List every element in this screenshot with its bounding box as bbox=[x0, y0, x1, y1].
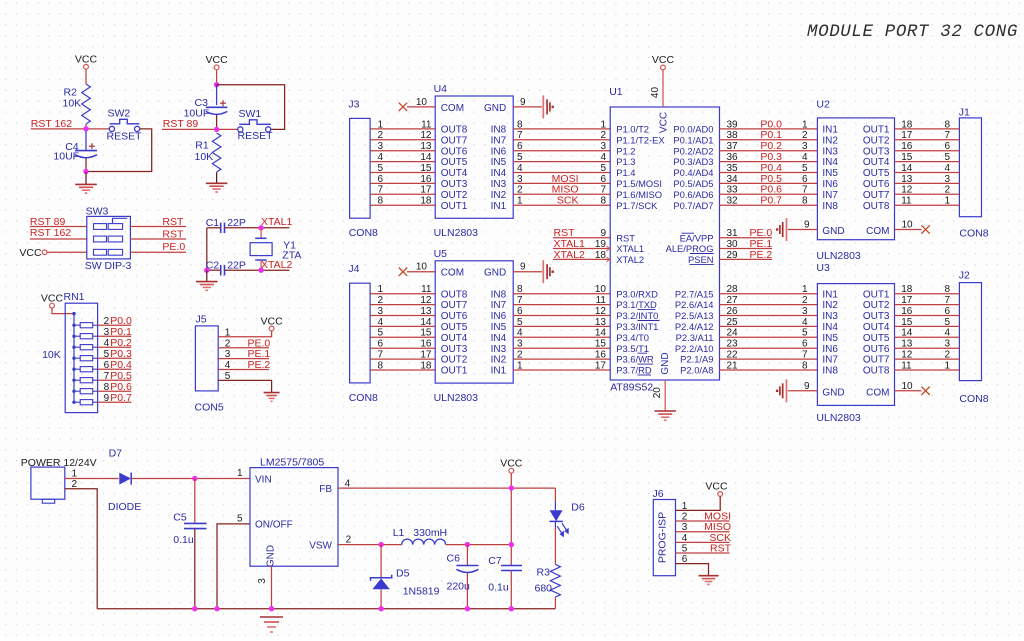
svg-text:2: 2 bbox=[378, 130, 384, 141]
svg-text:VCC: VCC bbox=[652, 54, 675, 66]
net label PE.0 bbox=[248, 337, 271, 349]
net label P0.3 bbox=[760, 151, 782, 163]
ground bbox=[776, 218, 787, 241]
svg-text:40: 40 bbox=[650, 87, 661, 99]
wire bbox=[513, 161, 610, 163]
pin number 6 bbox=[378, 339, 384, 350]
svg-text:OUT4: OUT4 bbox=[441, 333, 468, 344]
switch SW2 bbox=[107, 108, 143, 143]
pin number 3 bbox=[600, 141, 606, 152]
pin number 17 bbox=[901, 295, 913, 306]
connector J3 bbox=[348, 98, 378, 239]
pin number 33 bbox=[727, 185, 739, 196]
wire bbox=[676, 520, 730, 522]
svg-text:IN3: IN3 bbox=[491, 179, 507, 190]
pin number 9 bbox=[804, 220, 810, 231]
svg-text:0.1u: 0.1u bbox=[173, 534, 194, 546]
svg-text:XTAL1: XTAL1 bbox=[616, 243, 644, 254]
net label PE.1 bbox=[750, 238, 773, 250]
wire bbox=[895, 369, 960, 371]
pin number 3 bbox=[257, 578, 268, 584]
svg-text:10K: 10K bbox=[195, 151, 214, 163]
pin number 1 bbox=[517, 196, 523, 207]
pin number 13 bbox=[901, 339, 913, 350]
wire bbox=[380, 545, 382, 578]
pin number 4 bbox=[345, 478, 351, 489]
capacitor C1 bbox=[206, 217, 246, 233]
svg-text:VIN: VIN bbox=[255, 475, 272, 486]
pin number 8 bbox=[517, 284, 523, 295]
svg-text:P0.7: P0.7 bbox=[110, 392, 132, 404]
svg-text:XTAL1: XTAL1 bbox=[261, 216, 292, 228]
svg-text:12: 12 bbox=[595, 306, 607, 317]
ground bbox=[260, 617, 283, 632]
pin number 16 bbox=[595, 350, 607, 361]
svg-text:P3.1/TXD: P3.1/TXD bbox=[616, 299, 657, 310]
pin number 6 bbox=[682, 554, 688, 565]
wire bbox=[720, 347, 818, 349]
wire bbox=[513, 336, 610, 338]
svg-text:OUT3: OUT3 bbox=[441, 344, 468, 355]
pin number 1 bbox=[802, 119, 808, 130]
junction bbox=[378, 542, 383, 547]
net label MOSI bbox=[552, 173, 579, 185]
ground bbox=[196, 270, 218, 290]
wire bbox=[513, 347, 610, 349]
pin number 2 bbox=[600, 130, 606, 141]
svg-text:OUT7: OUT7 bbox=[441, 135, 468, 146]
wire bbox=[85, 124, 87, 129]
wire bbox=[370, 315, 435, 317]
op-amp U1 AT89S52 MCU bbox=[609, 86, 719, 394]
crystal Y1 bbox=[250, 238, 301, 261]
pin number 1 bbox=[72, 468, 78, 479]
svg-text:2: 2 bbox=[346, 534, 352, 545]
wire bbox=[895, 150, 960, 152]
wire bbox=[513, 304, 610, 306]
net label P0.1 bbox=[760, 129, 782, 141]
pin number 1 bbox=[944, 196, 950, 207]
svg-text:RESET: RESET bbox=[107, 130, 143, 142]
svg-text:OUT8: OUT8 bbox=[441, 125, 468, 136]
svg-text:P1.0/T2: P1.0/T2 bbox=[616, 124, 649, 135]
svg-text:8: 8 bbox=[802, 360, 808, 371]
wire bbox=[720, 204, 818, 206]
svg-text:4: 4 bbox=[600, 152, 606, 163]
wire bbox=[720, 150, 818, 152]
wire bbox=[513, 193, 610, 195]
svg-text:VSW: VSW bbox=[309, 540, 332, 551]
pin number 6 bbox=[944, 306, 950, 317]
pin number 18 bbox=[420, 196, 432, 207]
pin number 13 bbox=[595, 317, 607, 328]
svg-text:6: 6 bbox=[600, 174, 606, 185]
pin number 11 bbox=[421, 284, 432, 295]
wire bbox=[895, 182, 960, 184]
wire bbox=[260, 260, 262, 270]
svg-text:COM: COM bbox=[441, 268, 464, 279]
svg-text:680: 680 bbox=[535, 582, 553, 594]
svg-text:OUT7: OUT7 bbox=[863, 190, 890, 201]
svg-text:5: 5 bbox=[517, 317, 523, 328]
LED D6 bbox=[549, 502, 584, 538]
power flag VCC (reset 1) bbox=[75, 54, 98, 70]
wire bbox=[895, 347, 960, 349]
svg-text:3: 3 bbox=[600, 141, 606, 152]
net label P0.6 bbox=[110, 381, 132, 393]
svg-text:OUT5: OUT5 bbox=[863, 333, 890, 344]
wire bbox=[207, 227, 220, 229]
svg-text:P2.6/A14: P2.6/A14 bbox=[675, 299, 714, 310]
pin number 5 bbox=[600, 163, 606, 174]
svg-text:P2.7/A15: P2.7/A15 bbox=[675, 288, 714, 299]
svg-text:R3: R3 bbox=[537, 567, 551, 579]
svg-text:3: 3 bbox=[104, 327, 110, 338]
wire GND bbox=[788, 390, 818, 392]
pin number 24 bbox=[727, 328, 739, 339]
svg-text:U1: U1 bbox=[609, 86, 623, 98]
junction bbox=[509, 485, 514, 490]
svg-text:IN1: IN1 bbox=[491, 201, 507, 212]
svg-text:3: 3 bbox=[802, 306, 808, 317]
svg-text:CON8: CON8 bbox=[959, 393, 988, 405]
svg-text:IN4: IN4 bbox=[491, 168, 507, 179]
svg-text:P1.4: P1.4 bbox=[616, 167, 635, 178]
svg-text:6: 6 bbox=[378, 339, 384, 350]
svg-text:CON8: CON8 bbox=[959, 228, 988, 240]
svg-text:OUT1: OUT1 bbox=[441, 366, 468, 377]
no-connect X bbox=[399, 268, 407, 276]
net label P0.7 bbox=[760, 195, 782, 207]
pin number 1 bbox=[682, 501, 688, 512]
svg-text:11: 11 bbox=[421, 284, 432, 295]
svg-text:8: 8 bbox=[944, 284, 950, 295]
wire bbox=[720, 336, 818, 338]
wire bbox=[720, 182, 818, 184]
svg-text:IN5: IN5 bbox=[822, 333, 838, 344]
wire bbox=[370, 336, 435, 338]
svg-text:8: 8 bbox=[944, 119, 950, 130]
wire COM bbox=[407, 271, 435, 273]
pin number 9 bbox=[804, 381, 810, 392]
pin number 11 bbox=[596, 295, 607, 306]
pin number 13 bbox=[420, 141, 432, 152]
pin number 1 bbox=[600, 119, 606, 130]
svg-text:17: 17 bbox=[420, 185, 432, 196]
svg-text:CON8: CON8 bbox=[349, 392, 378, 404]
pin number 17 bbox=[420, 350, 432, 361]
svg-text:DIODE: DIODE bbox=[108, 501, 141, 513]
svg-text:5: 5 bbox=[104, 349, 110, 360]
svg-text:IN6: IN6 bbox=[491, 311, 507, 322]
wire RST162 bbox=[31, 128, 110, 130]
pin number 16 bbox=[901, 306, 913, 317]
svg-text:SW1: SW1 bbox=[239, 108, 262, 120]
net label RST 89 bbox=[163, 118, 199, 130]
no-connect X bbox=[399, 103, 407, 111]
IC U2 ULN2803 bbox=[816, 99, 894, 262]
wire bbox=[720, 304, 818, 306]
wire bbox=[676, 531, 730, 533]
net label P0.0 bbox=[110, 315, 132, 327]
svg-text:9: 9 bbox=[804, 220, 810, 231]
svg-text:7: 7 bbox=[378, 185, 384, 196]
pin number 27 bbox=[727, 295, 739, 306]
pin number 3 bbox=[104, 327, 110, 338]
svg-text:RESET: RESET bbox=[238, 130, 274, 142]
wire bbox=[553, 258, 610, 260]
pin number 8 bbox=[944, 119, 950, 130]
pin number 15 bbox=[420, 163, 432, 174]
pin number 5 bbox=[104, 349, 110, 360]
pin number 35 bbox=[727, 163, 739, 174]
wire bbox=[85, 69, 87, 84]
pin number 18 bbox=[420, 360, 432, 371]
svg-text:VCC: VCC bbox=[261, 316, 284, 328]
svg-text:IN8: IN8 bbox=[491, 289, 507, 300]
net label XTAL1 bbox=[261, 216, 292, 228]
power flag VCC (J6) bbox=[705, 481, 728, 497]
pin number 5 bbox=[225, 371, 231, 382]
pin number 6 bbox=[517, 141, 523, 152]
svg-text:ON/OFF: ON/OFF bbox=[255, 520, 293, 531]
pin number 31 bbox=[727, 228, 739, 239]
wire bbox=[513, 182, 610, 184]
wire bbox=[218, 331, 271, 337]
wire bbox=[98, 357, 132, 359]
title MODULE PORT 32 CONG bbox=[807, 22, 1018, 42]
svg-text:P0.2/AD2: P0.2/AD2 bbox=[673, 145, 713, 156]
svg-text:RST 162: RST 162 bbox=[31, 118, 72, 130]
wire bbox=[218, 358, 269, 360]
wire bbox=[895, 139, 960, 141]
svg-text:4: 4 bbox=[104, 338, 110, 349]
pin number 7 bbox=[517, 295, 523, 306]
pin number 2 bbox=[346, 534, 352, 545]
wire bbox=[370, 293, 435, 295]
svg-text:VCC: VCC bbox=[206, 54, 229, 66]
wire bbox=[513, 358, 610, 360]
wire bbox=[98, 335, 132, 337]
wire bbox=[895, 315, 960, 317]
wire bbox=[380, 589, 382, 608]
svg-text:OUT4: OUT4 bbox=[441, 168, 468, 179]
svg-text:20: 20 bbox=[652, 387, 663, 399]
svg-text:8: 8 bbox=[802, 196, 808, 207]
pin number 5 bbox=[517, 317, 523, 328]
svg-text:C5: C5 bbox=[173, 512, 187, 524]
wire bbox=[720, 293, 818, 295]
net label SCK bbox=[557, 195, 579, 207]
pin number 6 bbox=[600, 174, 606, 185]
wire bottom rail bbox=[97, 608, 555, 610]
pin number 7 bbox=[378, 350, 384, 361]
svg-text:5: 5 bbox=[378, 328, 384, 339]
wire pin20 bbox=[664, 380, 666, 411]
pin number 2 bbox=[517, 350, 523, 361]
pin decoration bbox=[607, 246, 610, 262]
pin number 5 bbox=[802, 163, 808, 174]
svg-text:OUT6: OUT6 bbox=[441, 146, 468, 157]
wire COM bbox=[895, 229, 922, 231]
svg-text:8: 8 bbox=[517, 119, 523, 130]
pin number 8 bbox=[944, 284, 950, 295]
svg-text:OUT6: OUT6 bbox=[863, 179, 890, 190]
pin number 7 bbox=[802, 185, 808, 196]
net label XTAL1 bbox=[554, 238, 585, 250]
wire bbox=[370, 304, 435, 306]
svg-text:4: 4 bbox=[944, 328, 950, 339]
svg-text:16: 16 bbox=[420, 174, 432, 185]
svg-text:8: 8 bbox=[517, 284, 523, 295]
pin number 7 bbox=[802, 350, 808, 361]
svg-text:LM2575/7805: LM2575/7805 bbox=[260, 457, 324, 469]
pin number 9 bbox=[104, 393, 110, 404]
pin number 14 bbox=[420, 152, 432, 163]
svg-text:SW2: SW2 bbox=[108, 108, 131, 120]
svg-text:1: 1 bbox=[944, 196, 950, 207]
svg-text:6: 6 bbox=[104, 360, 110, 371]
wire bbox=[98, 379, 132, 381]
pin number 12 bbox=[420, 295, 432, 306]
svg-text:RST: RST bbox=[616, 232, 635, 243]
pin number 11 bbox=[901, 360, 912, 371]
pin number 12 bbox=[420, 130, 432, 141]
pin number 14 bbox=[901, 163, 913, 174]
ground bbox=[699, 576, 719, 585]
svg-text:IN8: IN8 bbox=[822, 366, 838, 377]
wire bbox=[720, 248, 773, 250]
pin number 3 bbox=[944, 339, 950, 350]
pin number 14 bbox=[420, 317, 432, 328]
pin number 5 bbox=[378, 328, 384, 339]
svg-text:IN7: IN7 bbox=[491, 135, 507, 146]
svg-text:IN8: IN8 bbox=[491, 125, 507, 136]
svg-text:1: 1 bbox=[600, 119, 606, 130]
wire pin40 bbox=[662, 70, 664, 107]
svg-text:1: 1 bbox=[378, 284, 384, 295]
svg-text:MODULE PORT 32 CONG: MODULE PORT 32 CONG bbox=[807, 22, 1018, 42]
pin number 7 bbox=[104, 371, 110, 382]
svg-text:5: 5 bbox=[378, 163, 384, 174]
capacitor C4 bbox=[53, 141, 97, 163]
svg-text:6: 6 bbox=[517, 141, 523, 152]
svg-text:2: 2 bbox=[517, 185, 523, 196]
svg-text:6: 6 bbox=[802, 174, 808, 185]
junction bbox=[214, 82, 219, 87]
svg-text:3: 3 bbox=[944, 174, 950, 185]
svg-text:L1: L1 bbox=[393, 527, 405, 539]
wire bbox=[217, 85, 285, 130]
wire bbox=[895, 336, 960, 338]
capacitor C2 bbox=[206, 259, 246, 275]
svg-text:GND: GND bbox=[660, 352, 671, 374]
wire bbox=[720, 258, 773, 260]
svg-text:7: 7 bbox=[944, 130, 950, 141]
wire bbox=[554, 488, 556, 501]
pin number 2 bbox=[682, 511, 688, 522]
svg-text:IN2: IN2 bbox=[822, 135, 838, 146]
svg-text:IN4: IN4 bbox=[491, 333, 507, 344]
svg-text:U2: U2 bbox=[816, 99, 830, 111]
pin number 3 bbox=[225, 349, 231, 360]
wire bbox=[676, 496, 721, 510]
IC U3 ULN2803 bbox=[816, 262, 894, 424]
svg-text:7: 7 bbox=[802, 185, 808, 196]
svg-text:7: 7 bbox=[517, 130, 523, 141]
pin number 5 bbox=[517, 152, 523, 163]
net label P0.5 bbox=[110, 370, 132, 382]
wire bbox=[513, 315, 610, 317]
svg-text:7: 7 bbox=[802, 350, 808, 361]
wire GND bbox=[513, 106, 542, 108]
wire bbox=[895, 172, 960, 174]
junction bbox=[258, 225, 263, 230]
power flag VCC (supply) bbox=[500, 458, 523, 474]
svg-text:2: 2 bbox=[944, 350, 950, 361]
svg-text:FB: FB bbox=[319, 484, 332, 495]
svg-text:IN7: IN7 bbox=[822, 355, 838, 366]
svg-text:COM: COM bbox=[441, 103, 464, 114]
wire bbox=[895, 293, 960, 295]
net label MOSI bbox=[704, 510, 731, 522]
wire bbox=[30, 238, 87, 240]
pin number 9 bbox=[600, 228, 606, 239]
pin number 37 bbox=[727, 141, 739, 152]
svg-text:POWER 12/24V: POWER 12/24V bbox=[21, 457, 97, 469]
junction bbox=[83, 169, 88, 174]
svg-text:18: 18 bbox=[420, 360, 432, 371]
svg-text:17: 17 bbox=[595, 360, 607, 371]
svg-text:6: 6 bbox=[378, 174, 384, 185]
junction bbox=[204, 268, 209, 273]
pin number 1 bbox=[944, 360, 950, 371]
wire bbox=[554, 528, 556, 565]
net label P0.4 bbox=[110, 359, 132, 371]
svg-text:J2: J2 bbox=[959, 270, 970, 282]
ground bbox=[75, 172, 97, 193]
pin number 3 bbox=[517, 174, 523, 185]
pin number 5 bbox=[682, 543, 688, 554]
wire bbox=[370, 172, 435, 174]
svg-text:VCC: VCC bbox=[500, 458, 523, 470]
svg-text:1N5819: 1N5819 bbox=[403, 586, 440, 598]
svg-text:IN1: IN1 bbox=[491, 366, 507, 377]
pin number 5 bbox=[237, 514, 243, 525]
wire COM bbox=[407, 106, 435, 108]
svg-text:VCC: VCC bbox=[659, 112, 670, 133]
svg-text:1: 1 bbox=[802, 284, 808, 295]
svg-text:5: 5 bbox=[802, 163, 808, 174]
net label P0.2 bbox=[760, 140, 782, 152]
pin number 3 bbox=[682, 522, 688, 533]
pin number 14 bbox=[901, 328, 913, 339]
svg-text:4: 4 bbox=[517, 163, 523, 174]
pin number 8 bbox=[378, 360, 384, 371]
svg-text:C6: C6 bbox=[447, 553, 461, 565]
pin number 18 bbox=[901, 119, 913, 130]
svg-text:ULN2803: ULN2803 bbox=[434, 392, 479, 404]
wire bbox=[218, 369, 269, 371]
connector J1 bbox=[959, 107, 989, 240]
svg-text:12: 12 bbox=[420, 130, 432, 141]
svg-text:IN7: IN7 bbox=[822, 190, 838, 201]
wire bbox=[260, 228, 262, 239]
svg-text:8: 8 bbox=[378, 196, 384, 207]
wire bbox=[513, 293, 610, 295]
svg-text:P3.0/RXD: P3.0/RXD bbox=[616, 288, 658, 299]
wire bbox=[720, 315, 818, 317]
